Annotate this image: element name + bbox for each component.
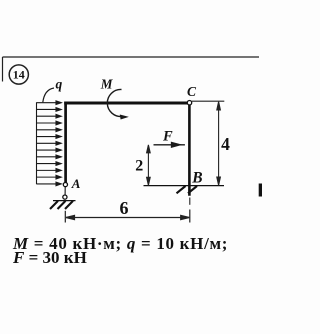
svg-text:C: C [187, 84, 197, 99]
svg-text:14: 14 [13, 68, 25, 82]
svg-text:6: 6 [120, 198, 129, 218]
svg-text:q: q [56, 76, 63, 91]
svg-text:M: M [100, 76, 114, 91]
svg-text:B: B [191, 170, 202, 187]
svg-text:2: 2 [135, 158, 143, 175]
svg-text:4: 4 [221, 134, 230, 154]
svg-text:A: A [71, 176, 81, 191]
